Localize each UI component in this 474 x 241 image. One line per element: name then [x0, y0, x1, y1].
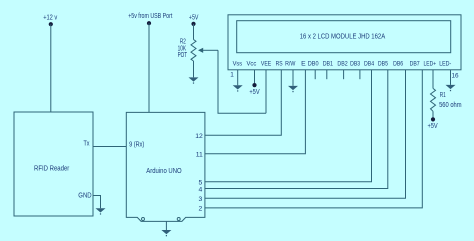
- wire DB7 to pin 2: [205, 70, 422, 208]
- svg-text:+5V: +5V: [249, 89, 259, 96]
- stub DB2: [343, 70, 345, 79]
- LCD module U3: [228, 15, 461, 70]
- wire DB5 to pin 4: [205, 70, 388, 189]
- svg-text:560 ohm: 560 ohm: [439, 102, 462, 109]
- svg-text:DB0: DB0: [308, 61, 319, 68]
- svg-text:4: 4: [199, 186, 203, 193]
- svg-text:1: 1: [230, 72, 234, 79]
- node +5V (R1): [428, 117, 438, 130]
- node +5V (pot supply): [189, 14, 199, 26]
- svg-text:R1: R1: [440, 92, 446, 99]
- resistor R1 560 ohm: [431, 88, 462, 111]
- svg-text:+5V: +5V: [189, 14, 199, 21]
- svg-text:R/W: R/W: [285, 61, 296, 68]
- svg-text:+5v from USB Port: +5v from USB Port: [128, 13, 172, 20]
- svg-text:DB4: DB4: [364, 61, 374, 68]
- wire GND: [93, 196, 101, 209]
- svg-text:Vcc: Vcc: [247, 61, 257, 68]
- Arduino UNO U2: [126, 112, 205, 221]
- svg-text:VEE: VEE: [261, 61, 272, 68]
- wire RS to pin 12: [205, 70, 281, 135]
- wire LED- to ground: [450, 70, 452, 85]
- stub DB1: [326, 70, 328, 79]
- svg-text:3: 3: [199, 196, 203, 203]
- svg-text:DB5: DB5: [378, 61, 388, 68]
- svg-text:16: 16: [451, 73, 459, 80]
- svg-text:DB3: DB3: [350, 61, 360, 68]
- svg-text:+5V: +5V: [428, 123, 438, 130]
- ground (R/W): [288, 86, 298, 92]
- wire R2 to ground: [193, 61, 195, 77]
- wire LED+ to R1: [432, 70, 434, 89]
- wire +12V to RFID Reader: [50, 24, 52, 112]
- wire E to pin 11: [205, 70, 306, 154]
- wire wiper to VEE: [218, 50, 266, 113]
- wire DB6 to pin 3: [205, 70, 406, 198]
- ground (RFID): [96, 208, 106, 214]
- stub DB0: [314, 70, 316, 79]
- wire Vss to ground: [237, 70, 239, 86]
- svg-text:Vss: Vss: [233, 61, 243, 68]
- svg-text:GND: GND: [78, 193, 91, 200]
- svg-text:DB7: DB7: [410, 61, 420, 68]
- wire Tx to Rx: [93, 146, 126, 148]
- svg-text:LED-: LED-: [439, 61, 451, 68]
- svg-text:9 (Rx): 9 (Rx): [129, 141, 144, 148]
- svg-text:Arduino UNO: Arduino UNO: [146, 166, 182, 175]
- wire USB +5V to Arduino: [148, 23, 150, 112]
- wire Vcc to +5V: [254, 70, 256, 84]
- wire DB4 to pin 5: [205, 70, 372, 182]
- stub DB3: [359, 70, 361, 79]
- potentiometer R2 10K: [178, 39, 218, 61]
- ground (Arduino): [161, 221, 171, 236]
- svg-text:DB2: DB2: [337, 61, 347, 68]
- wire R/W to ground: [292, 70, 294, 86]
- svg-text:POT: POT: [178, 52, 188, 59]
- svg-text:16 x 2 LCD MODULE JHD 162A: 16 x 2 LCD MODULE JHD 162A: [300, 33, 386, 40]
- ground (R2): [189, 77, 199, 83]
- svg-text:RS: RS: [276, 61, 283, 68]
- svg-text:12: 12: [195, 133, 203, 140]
- ground (Vss): [233, 85, 243, 91]
- wire VEE to wiper: [265, 70, 267, 114]
- svg-text:DB1: DB1: [323, 61, 333, 68]
- RFID Reader U1: [14, 112, 93, 216]
- svg-text:+12 v: +12 v: [43, 15, 57, 22]
- svg-text:LED+: LED+: [424, 61, 437, 68]
- svg-text:11: 11: [196, 152, 203, 159]
- wire R1 to +5V: [432, 111, 434, 117]
- svg-text:DB6: DB6: [393, 61, 403, 68]
- ground (LED-): [446, 85, 456, 91]
- node +12V: [43, 15, 57, 27]
- svg-text:RFID Reader: RFID Reader: [34, 163, 70, 172]
- svg-text:Tx: Tx: [84, 141, 90, 148]
- svg-text:E: E: [301, 61, 306, 68]
- svg-text:2: 2: [199, 206, 203, 213]
- node +5V from USB Port: [128, 13, 172, 25]
- wire +5V to R2: [193, 24, 195, 40]
- node +5V (Vcc): [249, 83, 259, 96]
